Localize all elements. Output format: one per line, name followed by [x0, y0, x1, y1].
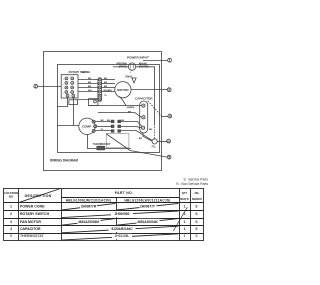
ground symbol — [132, 78, 136, 83]
svg-text:POWER INPUT: POWER INPUT — [127, 55, 149, 59]
capacitor terminals — [141, 104, 145, 129]
svg-text:S: S — [195, 234, 197, 238]
parts table — [4, 177, 209, 240]
harness tab box A — [69, 100, 78, 105]
svg-text:BK: BK — [149, 129, 153, 131]
wire motor row1 BK — [102, 78, 115, 80]
svg-text:S: S — [195, 205, 197, 209]
callout line 2 — [38, 86, 62, 88]
wire CN2 to capacitor bottom — [121, 122, 143, 127]
wire plug right to box edge — [136, 67, 155, 124]
svg-text:1: 1 — [184, 205, 186, 209]
callout balloon N — [167, 139, 171, 143]
row 1 POWER CORD — [62, 203, 179, 210]
svg-text:CAPACITOR: CAPACITOR — [20, 227, 41, 231]
svg-text:DESCRIPTION: DESCRIPTION — [25, 194, 52, 198]
svg-text:COMP: COMP — [82, 124, 91, 128]
table horizontals — [4, 198, 204, 234]
svg-text:2H00677T: 2H00677T — [140, 205, 155, 209]
wire label BR YL — [82, 72, 89, 74]
svg-text:2: 2 — [35, 84, 37, 88]
svg-text:3: 3 — [168, 88, 170, 92]
svg-text:OR(BR): OR(BR) — [127, 107, 135, 109]
wire switch bottom right to comp — [73, 98, 75, 126]
wire to capacitor mid BK — [98, 111, 142, 117]
svg-text:WH: WH — [88, 90, 92, 92]
power input label — [127, 55, 149, 59]
rotary switch terminals — [63, 77, 75, 97]
svg-text:RE-: RE- — [195, 191, 200, 195]
table verticals — [19, 189, 191, 241]
svg-text:2H01108L: 2H01108L — [115, 234, 130, 238]
wire motor row3 BR — [102, 86, 115, 88]
rotary switch SW1 body — [61, 75, 78, 98]
compressor terminals — [92, 120, 97, 132]
wire comp row3 — [95, 129, 111, 131]
svg-text:1: 1 — [184, 234, 186, 238]
svg-text:BK: BK — [128, 111, 132, 113]
svg-text:1: 1 — [184, 212, 186, 216]
svg-text:THERMOSTAT: THERMOSTAT — [20, 234, 45, 238]
wire to capacitor top OR(BR) — [90, 106, 142, 110]
compressor wire from inner box — [58, 125, 79, 127]
wire CN2 row3 to FG — [121, 131, 152, 141]
svg-text:2H000980: 2H000980 — [115, 212, 130, 216]
svg-text:2: 2 — [10, 212, 12, 216]
wire BK labels CN2 — [107, 120, 125, 122]
svg-text:HBLG1006LW(C1011ACIN): HBLG1006LW(C1011ACIN) — [66, 199, 111, 203]
svg-text:2H00677R: 2H00677R — [81, 205, 97, 209]
svg-text:4: 4 — [169, 114, 171, 118]
svg-text:1: 1 — [10, 205, 12, 209]
svg-text:BK: BK — [104, 82, 108, 84]
svg-text:PART NO.: PART NO. — [115, 191, 133, 195]
svg-text:POWER CORD: POWER CORD — [20, 205, 45, 209]
ground wire GN/YL — [125, 71, 133, 79]
wire CN2 row2 to capacitor bottom — [121, 127, 142, 128]
wire capacitor bottom BK label — [149, 129, 153, 131]
svg-text:MARKS: MARKS — [192, 197, 202, 201]
svg-text:CAPACITOR: CAPACITOR — [135, 96, 153, 100]
svg-text:S: S — [195, 227, 197, 231]
svg-text:FAN MOTOR: FAN MOTOR — [20, 220, 41, 224]
power plug P1 — [128, 63, 135, 70]
fan motor M1 — [115, 82, 131, 98]
wire YL label — [104, 95, 107, 97]
thermostat TH1 label — [93, 142, 111, 146]
wire capacitor to FG BR — [139, 133, 152, 141]
svg-text:S: S — [195, 212, 197, 216]
capacitor C1 body — [140, 101, 148, 133]
svg-text:BR: BR — [139, 138, 143, 140]
svg-text:S : Service Parts: S : Service Parts — [183, 177, 208, 181]
svg-text:4: 4 — [63, 93, 64, 95]
wire switch row4 WH — [78, 90, 98, 92]
frame ground FG — [152, 139, 158, 149]
svg-text:WIRING DIAGRAM: WIRING DIAGRAM — [50, 159, 78, 163]
row 4 CAPACITOR — [62, 226, 179, 233]
harness tab box B — [89, 99, 98, 106]
connector CN1 pins — [98, 78, 101, 101]
thermostat TH1 body — [97, 146, 105, 150]
callout balloon 3 — [167, 88, 171, 92]
svg-text:BK: BK — [101, 120, 105, 122]
callout line 1 — [143, 60, 168, 62]
svg-text:4681A20004M: 4681A20004M — [78, 220, 99, 224]
svg-text:HBLG1206LW(C1211ACJS): HBLG1206LW(C1211ACJS) — [125, 199, 171, 203]
wiring diagram label — [50, 159, 78, 163]
connector CN2 contacts — [111, 120, 120, 132]
callout balloon 1 — [168, 58, 172, 62]
svg-text:BR: BR — [104, 86, 108, 88]
svg-text:BK: BK — [104, 78, 108, 80]
svg-text:WH(BR): WH(BR) — [104, 90, 113, 92]
table frame — [4, 189, 204, 241]
compressor COMP — [79, 118, 95, 134]
svg-text:3: 3 — [63, 88, 64, 90]
inner unit box — [58, 65, 160, 153]
callout balloon 5 — [167, 155, 171, 159]
row 2 ROTARY SWITCH — [62, 211, 179, 218]
svg-text:6120AR2164C: 6120AR2164C — [111, 227, 133, 231]
svg-text:ROTARY SWITCH: ROTARY SWITCH — [69, 70, 91, 74]
svg-text:5: 5 — [168, 155, 170, 159]
wire white label — [139, 62, 149, 69]
svg-text:N : Non Service Parts: N : Non Service Parts — [176, 182, 208, 186]
svg-text:1: 1 — [63, 79, 64, 81]
svg-text:4681A20004K: 4681A20004K — [137, 220, 158, 224]
callout balloon 2 — [34, 84, 38, 88]
svg-text:2: 2 — [63, 84, 64, 86]
svg-text:F.G.: F.G. — [152, 145, 157, 148]
row 5 THERMOSTAT — [62, 234, 179, 240]
wire comp row2 — [97, 126, 112, 128]
header diagonal — [20, 189, 61, 203]
svg-text:QTY: QTY — [182, 191, 188, 195]
wire motor bottom curve — [120, 96, 127, 105]
wire thermostat right — [105, 148, 132, 150]
callout dashed line 4 — [148, 101, 168, 117]
callout line 3 — [131, 89, 167, 91]
outer diagram box — [44, 52, 162, 171]
wire brown label — [117, 62, 127, 69]
svg-text:BR: BR — [88, 86, 92, 88]
capacitor label — [135, 96, 153, 100]
wire switch bottom left — [58, 98, 68, 107]
callout line 5 — [107, 134, 168, 157]
svg-text:MOTOR: MOTOR — [117, 88, 129, 92]
row 3 FAN MOTOR — [62, 219, 179, 226]
thermostat loop box — [106, 133, 129, 147]
svg-text:3: 3 — [10, 220, 12, 224]
svg-text:4: 4 — [10, 227, 12, 231]
qty column fold diagonal — [173, 207, 187, 231]
svg-text:1: 1 — [184, 227, 186, 231]
wire switch row1 BK — [78, 78, 98, 80]
legend service parts — [176, 177, 208, 186]
callout line N to FG — [157, 141, 166, 143]
svg-text:S: S — [195, 220, 197, 224]
wire plug left lead — [113, 66, 128, 68]
wire switch row2 BK — [78, 82, 98, 84]
callout balloon 4 — [168, 114, 172, 118]
svg-text:REQ'D: REQ'D — [180, 197, 188, 201]
wire motor row2 BK — [102, 82, 115, 84]
rotary switch label — [69, 70, 91, 74]
dashed link capacitor to FG — [154, 124, 156, 139]
svg-text:BK: BK — [107, 120, 111, 122]
svg-text:1: 1 — [169, 58, 171, 62]
svg-text:BK: BK — [88, 78, 92, 80]
wire tab to connector — [78, 99, 99, 101]
svg-text:N: N — [168, 139, 170, 143]
wire switch row3 BR — [78, 86, 98, 88]
wire comp bottom to thermostat — [88, 135, 97, 149]
svg-text:THERMOSTAT: THERMOSTAT — [93, 142, 111, 146]
wire comp row1 BK — [95, 120, 111, 122]
svg-text:1: 1 — [184, 220, 186, 224]
svg-text:5: 5 — [10, 234, 12, 238]
svg-text:BK: BK — [88, 82, 92, 84]
wire motor row4 WH(BR) — [102, 90, 115, 92]
header texts — [4, 191, 202, 203]
connector CN1 strip — [98, 78, 102, 102]
svg-text:ROTARY SWITCH: ROTARY SWITCH — [20, 212, 50, 216]
